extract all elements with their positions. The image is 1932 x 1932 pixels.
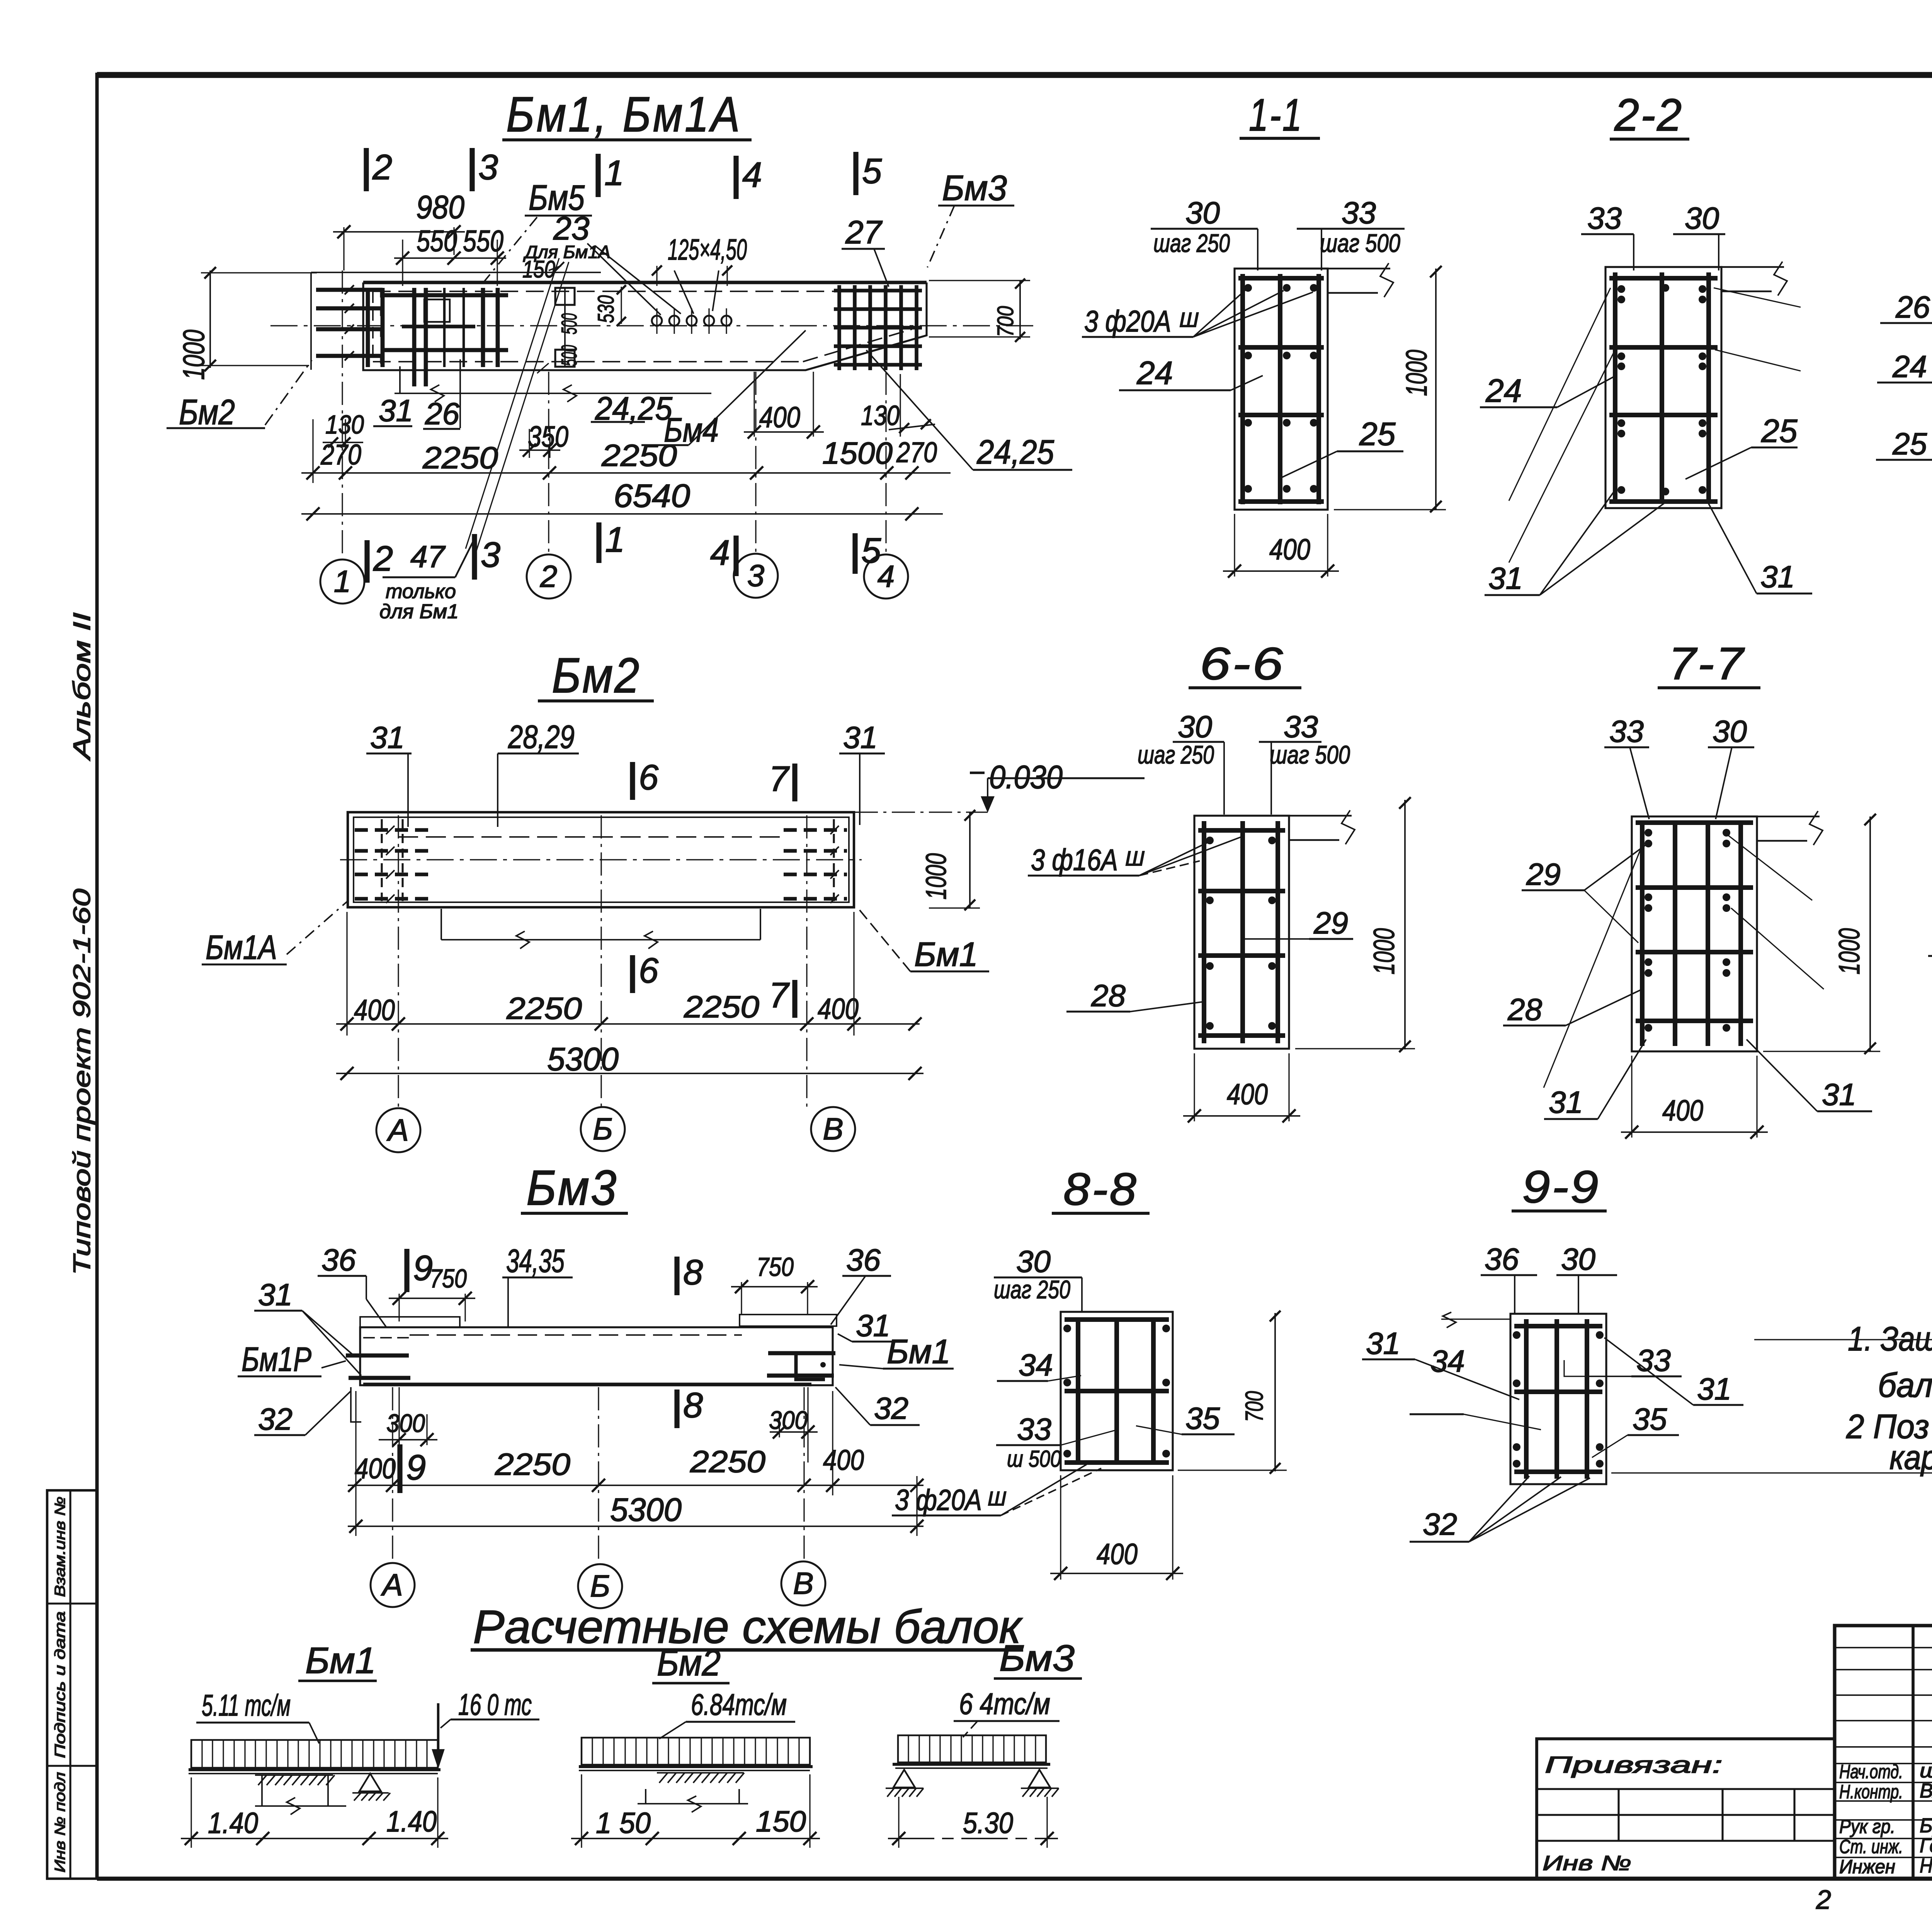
section mark 3 top bbox=[469, 148, 474, 191]
protruding bars at left end of Бм1 bbox=[316, 288, 383, 292]
beam Бм1 axis dash-dot line bbox=[270, 325, 1039, 326]
svg-text:31: 31 bbox=[1549, 1085, 1583, 1119]
svg-text:31: 31 bbox=[370, 720, 405, 755]
section 7-7 slab cut bbox=[1757, 816, 1820, 817]
svg-text:2: 2 bbox=[373, 539, 393, 578]
drawing frame left border bbox=[95, 73, 99, 1879]
scheme Бм2 beam line bbox=[579, 1765, 813, 1768]
svg-text:1.40: 1.40 bbox=[208, 1807, 258, 1840]
svg-text:Типовой проект 902-1-60: Типовой проект 902-1-60 bbox=[69, 889, 95, 1275]
svg-text:30: 30 bbox=[1685, 201, 1719, 235]
section 9-9 concrete outline bbox=[1510, 1314, 1606, 1484]
scheme Бм1 pin support bbox=[359, 1774, 381, 1791]
svg-text:400: 400 bbox=[818, 993, 859, 1026]
svg-text:каркасами: каркасами bbox=[1889, 1438, 1932, 1476]
section mark 6 bottom of Бм2 bbox=[630, 955, 635, 993]
svg-text:Нач.отд.: Нач.отд. bbox=[1839, 1761, 1903, 1782]
svg-text:2: 2 bbox=[1816, 1884, 1831, 1915]
svg-text:6 4тс/м: 6 4тс/м bbox=[959, 1687, 1050, 1721]
section mark 9 top of Бм3 bbox=[404, 1249, 409, 1292]
svg-text:700: 700 bbox=[1240, 1391, 1268, 1422]
svg-text:Привязан:: Привязан: bbox=[1545, 1752, 1723, 1778]
axis circle 1 bbox=[320, 560, 364, 604]
svg-text:35: 35 bbox=[1633, 1402, 1667, 1436]
svg-text:2250: 2250 bbox=[495, 1447, 570, 1481]
scheme Бм1 distributed load strip bbox=[191, 1740, 438, 1768]
svg-text:Бм3: Бм3 bbox=[942, 168, 1007, 208]
leaders 23 to holes bbox=[587, 243, 661, 315]
left margin stamp table bbox=[47, 1490, 97, 1879]
svg-text:7-7: 7-7 bbox=[1668, 638, 1745, 689]
svg-text:24: 24 bbox=[1892, 349, 1927, 384]
svg-text:31: 31 bbox=[1822, 1077, 1856, 1112]
svg-text:1: 1 bbox=[605, 520, 625, 560]
svg-text:700: 700 bbox=[993, 306, 1018, 337]
section 7-7 concrete outline bbox=[1632, 816, 1757, 1051]
beam Бм2 long top bar dashed bbox=[398, 836, 784, 838]
axis circle Б of Бм2 bbox=[581, 1107, 625, 1151]
svg-text:550: 550 bbox=[417, 224, 457, 258]
svg-text:Геселева: Геселева bbox=[1920, 1835, 1932, 1857]
svg-text:400: 400 bbox=[823, 1444, 864, 1476]
svg-text:25: 25 bbox=[1761, 413, 1798, 449]
drawing frame bottom border bbox=[97, 1877, 1932, 1881]
svg-text:Бм1: Бм1 bbox=[305, 1640, 376, 1681]
svg-text:125×4,50: 125×4,50 bbox=[668, 233, 747, 266]
section mark 8 bottom of Бм3 bbox=[674, 1389, 679, 1428]
Привязан box bbox=[1537, 1739, 1835, 1879]
svg-text:1.40: 1.40 bbox=[386, 1805, 437, 1838]
axis circle В of Бм2 bbox=[811, 1107, 855, 1151]
svg-text:33: 33 bbox=[1342, 196, 1376, 230]
scheme Бм2 support hatch bbox=[657, 1772, 744, 1774]
svg-text:только: только bbox=[386, 580, 456, 603]
section mark 4 bottom bbox=[733, 536, 738, 576]
section mark 8 top of Бм3 bbox=[674, 1257, 679, 1295]
svg-text:4: 4 bbox=[742, 155, 762, 195]
section mark 3 bottom bbox=[472, 534, 477, 580]
beam Бм1 outline bbox=[363, 281, 927, 284]
svg-text:А: А bbox=[386, 1113, 408, 1147]
beam Бм1 inner dashed cage outline bbox=[373, 291, 917, 292]
bar 24,25 under Бм1 bbox=[395, 393, 711, 394]
svg-text:Инв №: Инв № bbox=[1543, 1852, 1631, 1875]
svg-text:2250: 2250 bbox=[684, 990, 759, 1024]
svg-text:Бм3: Бм3 bbox=[526, 1160, 618, 1216]
right mesh block 27 of Бм1 bbox=[837, 285, 841, 370]
svg-text:для Бм1: для Бм1 bbox=[379, 600, 459, 623]
svg-text:Бм1А: Бм1А bbox=[206, 928, 277, 966]
svg-text:шаг 500: шаг 500 bbox=[1320, 229, 1400, 257]
svg-text:31: 31 bbox=[856, 1308, 890, 1343]
svg-text:32: 32 bbox=[1423, 1507, 1457, 1541]
svg-text:31: 31 bbox=[1488, 561, 1523, 595]
bolt holes in Бм1 bbox=[652, 316, 662, 326]
leader Бм5 bbox=[480, 217, 537, 287]
svg-text:В: В bbox=[793, 1566, 813, 1600]
svg-text:Альбом II: Альбом II bbox=[69, 612, 95, 762]
svg-text:Власенко: Власенко bbox=[1920, 1780, 1932, 1802]
bracket below Бм2 bbox=[440, 909, 442, 940]
section 8-8 concrete outline bbox=[1061, 1312, 1173, 1470]
svg-text:Бм2: Бм2 bbox=[657, 1642, 721, 1684]
svg-text:шаг 250: шаг 250 bbox=[994, 1275, 1070, 1304]
drawing frame top border bbox=[97, 72, 1932, 78]
section 6-6 slab cut bbox=[1289, 815, 1352, 816]
svg-text:6540: 6540 bbox=[614, 478, 690, 514]
section mark 2 bottom bbox=[364, 540, 369, 583]
svg-text:1 50: 1 50 bbox=[596, 1807, 651, 1840]
scheme Бм3 right support bbox=[1029, 1770, 1050, 1787]
svg-text:400: 400 bbox=[1662, 1094, 1703, 1127]
svg-text:1500: 1500 bbox=[822, 436, 893, 470]
svg-text:6: 6 bbox=[639, 758, 659, 797]
svg-text:24: 24 bbox=[1136, 355, 1173, 391]
scheme Бм2 distributed load strip bbox=[582, 1738, 810, 1765]
svg-text:400: 400 bbox=[1227, 1078, 1268, 1111]
svg-text:А: А bbox=[381, 1568, 403, 1602]
svg-text:530: 530 bbox=[594, 295, 619, 323]
axis circle А of Бм2 bbox=[376, 1108, 420, 1152]
section 7-7 rebar dots bbox=[1645, 829, 1652, 837]
scheme Бм3 left support bbox=[893, 1770, 915, 1787]
section 1-1 slab cut bbox=[1328, 268, 1390, 269]
svg-text:3: 3 bbox=[747, 558, 765, 593]
svg-text:31: 31 bbox=[258, 1277, 293, 1312]
svg-text:Бм1: Бм1 bbox=[914, 935, 978, 973]
section mark 5 bottom bbox=[852, 533, 857, 574]
section 9-9 top ext line bbox=[1441, 1318, 1510, 1320]
leader lines below Бм1 left end bbox=[399, 366, 401, 393]
axis circle Б of Бм3 bbox=[578, 1564, 622, 1608]
svg-text:33: 33 bbox=[1017, 1412, 1051, 1446]
section 2-2 rebar dots bbox=[1617, 285, 1625, 293]
svg-text:400: 400 bbox=[759, 401, 800, 434]
svg-text:31: 31 bbox=[379, 393, 413, 428]
svg-text:36: 36 bbox=[321, 1243, 356, 1277]
svg-text:28: 28 bbox=[1091, 978, 1126, 1013]
beam Бм2 outline bbox=[348, 812, 854, 907]
beam Бм2 right end dashed bars bbox=[784, 828, 847, 832]
svg-text:2: 2 bbox=[372, 148, 392, 187]
axis circle 4 bbox=[864, 554, 908, 599]
svg-text:31: 31 bbox=[1366, 1326, 1400, 1361]
outer thin contour at left end of Бм1 bbox=[310, 272, 312, 370]
svg-text:34,35: 34,35 bbox=[506, 1243, 565, 1279]
svg-text:29: 29 bbox=[1313, 906, 1348, 940]
svg-text:6-6: 6-6 bbox=[1200, 638, 1285, 689]
svg-text:31: 31 bbox=[843, 720, 878, 755]
svg-text:28: 28 bbox=[1507, 992, 1542, 1027]
svg-text:33: 33 bbox=[1587, 201, 1622, 235]
svg-text:1000: 1000 bbox=[1368, 928, 1401, 975]
svg-text:8: 8 bbox=[683, 1386, 703, 1425]
svg-text:33: 33 bbox=[1609, 714, 1644, 748]
svg-text:8: 8 bbox=[683, 1253, 703, 1292]
svg-text:270: 270 bbox=[320, 439, 361, 471]
section 1-1 concrete outline bbox=[1235, 269, 1328, 510]
svg-text:5300: 5300 bbox=[610, 1492, 682, 1528]
svg-text:Инв № подл: Инв № подл bbox=[52, 1772, 68, 1872]
scheme Бм1 force arrow bbox=[437, 1703, 439, 1765]
svg-text:шаг 250: шаг 250 bbox=[1138, 740, 1214, 769]
svg-text:400: 400 bbox=[1097, 1538, 1138, 1571]
axis lines of Бм1 bbox=[342, 270, 343, 556]
svg-text:Взам.инв №: Взам.инв № bbox=[52, 1497, 68, 1597]
svg-text:30: 30 bbox=[1561, 1242, 1595, 1276]
svg-text:35: 35 bbox=[1185, 1401, 1220, 1435]
beam Бм3 right top plate bbox=[740, 1315, 837, 1326]
diagonal reference lines near section 3 of Бм1 bbox=[466, 258, 559, 549]
section 2-2 concrete outline bbox=[1605, 267, 1721, 508]
svg-text:3: 3 bbox=[481, 535, 500, 575]
beam Бм2 left end dashed bars bbox=[355, 828, 428, 832]
svg-text:Бм2: Бм2 bbox=[552, 648, 641, 703]
svg-text:31: 31 bbox=[1697, 1372, 1731, 1406]
svg-text:5.30: 5.30 bbox=[963, 1807, 1013, 1840]
svg-text:2-2: 2-2 bbox=[1614, 90, 1683, 141]
svg-text:24: 24 bbox=[1485, 372, 1522, 409]
svg-text:Инжен: Инжен bbox=[1839, 1856, 1895, 1878]
scheme Бм3 beam line bbox=[893, 1763, 1050, 1766]
section 1-1 rebar dots bbox=[1244, 284, 1252, 292]
svg-text:Ш: Ш bbox=[1125, 847, 1145, 870]
svg-text:1: 1 bbox=[334, 564, 351, 599]
svg-text:500: 500 bbox=[557, 313, 581, 335]
scheme Бм1 beam line bbox=[189, 1768, 440, 1771]
svg-text:25: 25 bbox=[1892, 427, 1927, 461]
svg-text:Ш: Ш bbox=[988, 1488, 1006, 1510]
svg-text:30: 30 bbox=[1185, 196, 1220, 230]
section mark 9 bottom of Бм3 bbox=[397, 1444, 402, 1493]
svg-text:1. Защитный слой бетона для: 1. Защитный слой бетона для рабочей арма… bbox=[1848, 1320, 1932, 1358]
svg-text:29: 29 bbox=[1526, 857, 1561, 891]
svg-text:36: 36 bbox=[846, 1243, 881, 1277]
svg-text:300: 300 bbox=[769, 1406, 808, 1434]
svg-text:9: 9 bbox=[406, 1448, 426, 1487]
svg-text:Ш: Ш bbox=[1179, 308, 1199, 332]
svg-text:33: 33 bbox=[1636, 1343, 1671, 1378]
svg-text:В: В bbox=[823, 1112, 843, 1146]
section mark 2 top bbox=[364, 148, 369, 191]
section mark 7 top of Бм2 bbox=[792, 764, 797, 801]
svg-text:130: 130 bbox=[325, 410, 364, 439]
svg-text:47: 47 bbox=[410, 539, 446, 574]
leaders 125x4 to holes bbox=[674, 270, 694, 314]
svg-text:Б: Б bbox=[590, 1569, 610, 1603]
svg-text:30: 30 bbox=[1713, 714, 1747, 748]
svg-text:Бм1: Бм1 bbox=[887, 1332, 951, 1371]
svg-text:23: 23 bbox=[553, 210, 589, 247]
title block left grid rows bbox=[1835, 1647, 1932, 1648]
svg-text:1000: 1000 bbox=[920, 853, 952, 900]
svg-text:Ст. инж.: Ст. инж. bbox=[1839, 1836, 1903, 1857]
axis circle В of Бм3 bbox=[781, 1561, 825, 1605]
svg-text:34: 34 bbox=[1019, 1348, 1053, 1382]
svg-text:2250: 2250 bbox=[422, 440, 498, 475]
svg-text:Никитенко: Никитенко bbox=[1920, 1855, 1932, 1877]
beam Бм3 left top plate bbox=[360, 1317, 460, 1327]
svg-text:3 ф20А: 3 ф20А bbox=[1084, 304, 1171, 338]
axis circle 3 bbox=[734, 554, 778, 598]
svg-text:130: 130 bbox=[861, 400, 900, 431]
svg-text:32: 32 bbox=[258, 1402, 293, 1436]
svg-text:шейко: шейко bbox=[1920, 1760, 1932, 1782]
section 6-6 rebar dots bbox=[1206, 837, 1214, 844]
scheme Бм2 bracket bbox=[645, 1789, 646, 1804]
svg-text:400: 400 bbox=[1269, 533, 1310, 566]
svg-text:27: 27 bbox=[845, 214, 883, 250]
svg-text:270: 270 bbox=[896, 436, 937, 468]
svg-text:980: 980 bbox=[416, 189, 464, 225]
svg-text:Б: Б bbox=[593, 1112, 613, 1146]
scheme Бм1 bracket bbox=[261, 1775, 263, 1806]
beam Бм3 outline bbox=[360, 1327, 833, 1385]
svg-text:шаг 250: шаг 250 bbox=[1153, 229, 1230, 257]
svg-text:3 ф20А: 3 ф20А bbox=[895, 1484, 982, 1517]
section 2-2 slab cut bbox=[1721, 266, 1784, 268]
section 6-6 concrete outline bbox=[1194, 816, 1289, 1049]
svg-text:Бм1Р: Бм1Р bbox=[241, 1340, 311, 1378]
svg-text:2250: 2250 bbox=[690, 1444, 765, 1479]
svg-text:750: 750 bbox=[430, 1264, 467, 1293]
svg-text:400: 400 bbox=[354, 994, 395, 1027]
section mark 6 top of Бм2 bbox=[630, 762, 635, 800]
section mark 4 top bbox=[733, 156, 738, 199]
title block left grid verticals bbox=[1912, 1626, 1915, 1879]
svg-text:500: 500 bbox=[557, 345, 581, 366]
svg-text:2250: 2250 bbox=[506, 991, 582, 1026]
svg-text:1: 1 bbox=[604, 153, 624, 193]
svg-text:8-8: 8-8 bbox=[1063, 1164, 1138, 1215]
tick marks on Бм2 bars bbox=[386, 826, 395, 834]
svg-text:34: 34 bbox=[1430, 1344, 1465, 1378]
axis lines of Бм2 bbox=[398, 815, 399, 1108]
svg-text:150: 150 bbox=[756, 1805, 806, 1838]
beam Бм3 dashed bars bbox=[410, 1334, 742, 1336]
svg-text:30: 30 bbox=[1178, 709, 1212, 744]
svg-text:30: 30 bbox=[1016, 1244, 1051, 1279]
svg-text:28,29: 28,29 bbox=[508, 719, 575, 755]
beam Бм3 right end bars bbox=[768, 1351, 835, 1355]
svg-text:Бм2: Бм2 bbox=[179, 393, 235, 432]
svg-text:4: 4 bbox=[878, 559, 895, 594]
scheme Бм3 distributed load strip bbox=[898, 1735, 1046, 1762]
svg-text:1000: 1000 bbox=[1833, 928, 1866, 975]
svg-text:3 ф16А: 3 ф16А bbox=[1031, 843, 1118, 877]
svg-text:9-9: 9-9 bbox=[1522, 1162, 1600, 1213]
section mark 7 bottom of Бм2 bbox=[792, 980, 797, 1018]
svg-text:36: 36 bbox=[1485, 1242, 1519, 1276]
axis circle А of Бм3 bbox=[371, 1563, 415, 1607]
beam Бм2 axis line bbox=[340, 859, 862, 860]
svg-text:26: 26 bbox=[425, 396, 459, 431]
svg-text:2: 2 bbox=[540, 559, 558, 594]
svg-text:25: 25 bbox=[1359, 416, 1396, 452]
svg-text:750: 750 bbox=[757, 1252, 794, 1282]
svg-text:2250: 2250 bbox=[601, 438, 677, 473]
svg-text:ш 500: ш 500 bbox=[1007, 1446, 1061, 1472]
axis lines of Бм3 bbox=[392, 1387, 393, 1562]
svg-text:Рук гр.: Рук гр. bbox=[1839, 1816, 1895, 1837]
svg-text:7: 7 bbox=[769, 759, 790, 799]
svg-text:5300: 5300 bbox=[547, 1041, 619, 1077]
svg-text:16 0 тс: 16 0 тс bbox=[458, 1687, 532, 1721]
svg-text:Н.контр.: Н.контр. bbox=[1839, 1781, 1903, 1803]
svg-text:балок принят 25 мм.: балок принят 25 мм. bbox=[1878, 1366, 1932, 1404]
scheme Бм1 left support hatch bbox=[255, 1774, 333, 1776]
svg-text:Бм3: Бм3 bbox=[999, 1638, 1075, 1679]
svg-text:26: 26 bbox=[1895, 290, 1930, 324]
svg-text:1-1: 1-1 bbox=[1249, 90, 1303, 141]
svg-text:31: 31 bbox=[1760, 560, 1795, 594]
title block outer box bbox=[1835, 1626, 1932, 1879]
svg-text:4: 4 bbox=[710, 533, 730, 573]
left rebar block of Бм1 bbox=[366, 288, 370, 367]
section 8-8 rebar dots bbox=[1063, 1325, 1071, 1332]
svg-text:3: 3 bbox=[478, 148, 498, 187]
axis circle 2 bbox=[527, 554, 571, 599]
plates 500x500 in Бм1 bbox=[555, 288, 575, 305]
svg-text:Бм1, Бм1А: Бм1, Бм1А bbox=[506, 87, 742, 142]
svg-text:24,25: 24,25 bbox=[976, 433, 1054, 471]
svg-text:7: 7 bbox=[769, 976, 790, 1015]
svg-text:32: 32 bbox=[874, 1391, 908, 1425]
section mark 1 top bbox=[595, 154, 600, 197]
svg-text:Бродская: Бродская bbox=[1920, 1815, 1932, 1837]
svg-text:1000: 1000 bbox=[1400, 350, 1433, 396]
section mark 1 bottom bbox=[596, 522, 601, 563]
svg-text:0.030: 0.030 bbox=[989, 759, 1063, 795]
svg-text:6: 6 bbox=[639, 951, 659, 990]
svg-text:Расчетные схемы балок: Расчетные схемы балок bbox=[473, 1600, 1023, 1653]
svg-text:5: 5 bbox=[862, 151, 882, 191]
svg-text:1000: 1000 bbox=[177, 330, 211, 380]
svg-text:Подпись и дата: Подпись и дата bbox=[52, 1611, 68, 1758]
svg-text:5.11 тс/м: 5.11 тс/м bbox=[202, 1688, 291, 1722]
svg-text:6.84тс/м: 6.84тс/м bbox=[691, 1687, 787, 1721]
section mark 5 top bbox=[853, 152, 858, 195]
beam Бм3 left end bars bbox=[346, 1354, 409, 1358]
svg-text:шаг 500: шаг 500 bbox=[1270, 740, 1350, 769]
section 9-9 rebar dots bbox=[1513, 1331, 1520, 1339]
svg-text:33: 33 bbox=[1284, 709, 1318, 744]
